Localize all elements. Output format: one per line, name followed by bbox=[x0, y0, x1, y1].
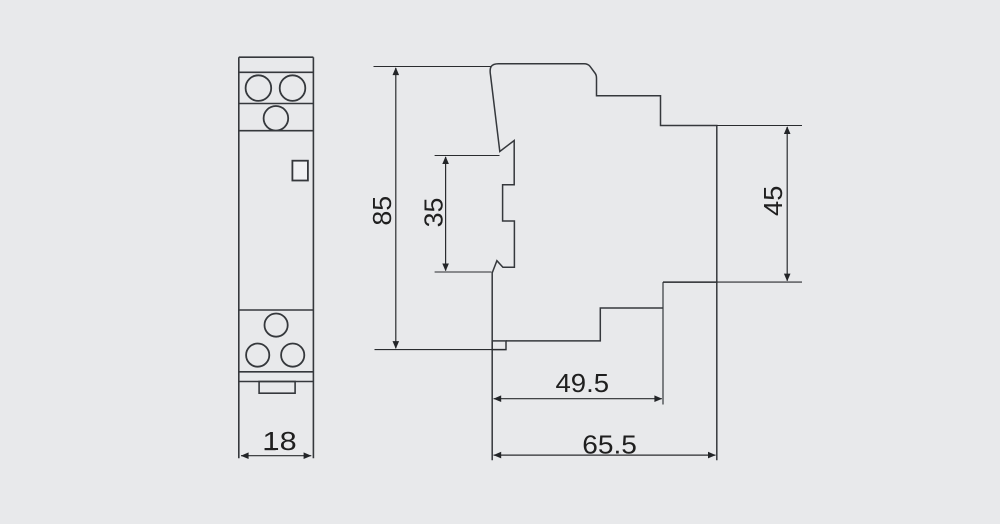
side view: main profile outline bbox=[490, 64, 717, 461]
dimension 45: top extension line bbox=[717, 125, 802, 127]
svg-text:18: 18 bbox=[263, 427, 297, 456]
front view: bottom terminal screw left bbox=[246, 344, 269, 367]
dimension 49.5: right arrow bbox=[654, 395, 662, 402]
dimension 18: left arrow bbox=[241, 452, 249, 459]
dimension 35: top arrow bbox=[442, 156, 449, 164]
front view: top terminal screw right bbox=[280, 75, 306, 101]
front view: bottom terminal screw right bbox=[281, 344, 304, 367]
front view: upper single screw bbox=[264, 106, 289, 131]
side view: extension line for 49.5 (right) bbox=[662, 282, 664, 404]
dimension 18: serif foot of digit 1 bbox=[265, 448, 276, 450]
dimension 85: top arrow bbox=[393, 67, 400, 75]
front view: divider line 4 bbox=[239, 130, 314, 132]
dimension 35: bottom extension line bbox=[435, 271, 492, 273]
dimension 85: bottom arrow bbox=[393, 341, 400, 349]
side view: right step under 45 section bbox=[663, 281, 717, 283]
front view: divider line 5 bbox=[239, 309, 314, 311]
front view: lower single screw bbox=[265, 314, 288, 337]
dimension 65.5: right arrow bbox=[708, 452, 716, 459]
front view: top edge bbox=[239, 56, 314, 58]
dimension 18: right arrow bbox=[304, 452, 312, 459]
svg-text:35: 35 bbox=[419, 198, 449, 228]
dimension 45: bottom arrow bbox=[784, 274, 791, 282]
dimension 35: top extension line bbox=[435, 155, 500, 157]
dimension 85: dimension line bbox=[395, 68, 397, 348]
dimension 35: dimension line bbox=[445, 157, 447, 271]
dimension 65.5: left arrow bbox=[493, 452, 501, 459]
svg-text:49.5: 49.5 bbox=[555, 369, 609, 398]
svg-text:85: 85 bbox=[367, 196, 397, 226]
dimension 18: line bbox=[241, 455, 311, 457]
dimension 65.5: dimension line bbox=[494, 454, 716, 456]
dimension 49.5: dimension line bbox=[494, 398, 662, 400]
front view: top terminal screw left bbox=[246, 75, 272, 101]
dimension 45: top arrow bbox=[784, 126, 791, 134]
side view: DIN clip foot bbox=[492, 341, 506, 350]
svg-text:45: 45 bbox=[758, 186, 787, 216]
front view: divider line 2 bbox=[239, 71, 314, 73]
svg-text:65.5: 65.5 bbox=[582, 430, 637, 459]
side view: lower rear steps bbox=[506, 308, 663, 341]
dimension 85: top extension line bbox=[374, 66, 491, 68]
dimension 45: dimension line bbox=[786, 127, 788, 281]
front view: bottom DIN clip tab bbox=[259, 382, 295, 394]
front view: indicator window bbox=[292, 161, 308, 181]
front view: divider line 3 bbox=[239, 103, 314, 105]
dimension 49.5: left arrow bbox=[493, 395, 501, 402]
front view: module outline (right vertical) bbox=[312, 57, 314, 458]
dimension 85: bottom extension line bbox=[375, 349, 506, 351]
front view: divider line 6 bbox=[239, 371, 314, 373]
dimension 45: bottom extension line bbox=[663, 281, 802, 283]
front view: bottom edge bbox=[239, 381, 314, 383]
front view: module outline (left vertical) bbox=[238, 57, 240, 458]
dimension 35: bottom arrow bbox=[442, 264, 449, 272]
